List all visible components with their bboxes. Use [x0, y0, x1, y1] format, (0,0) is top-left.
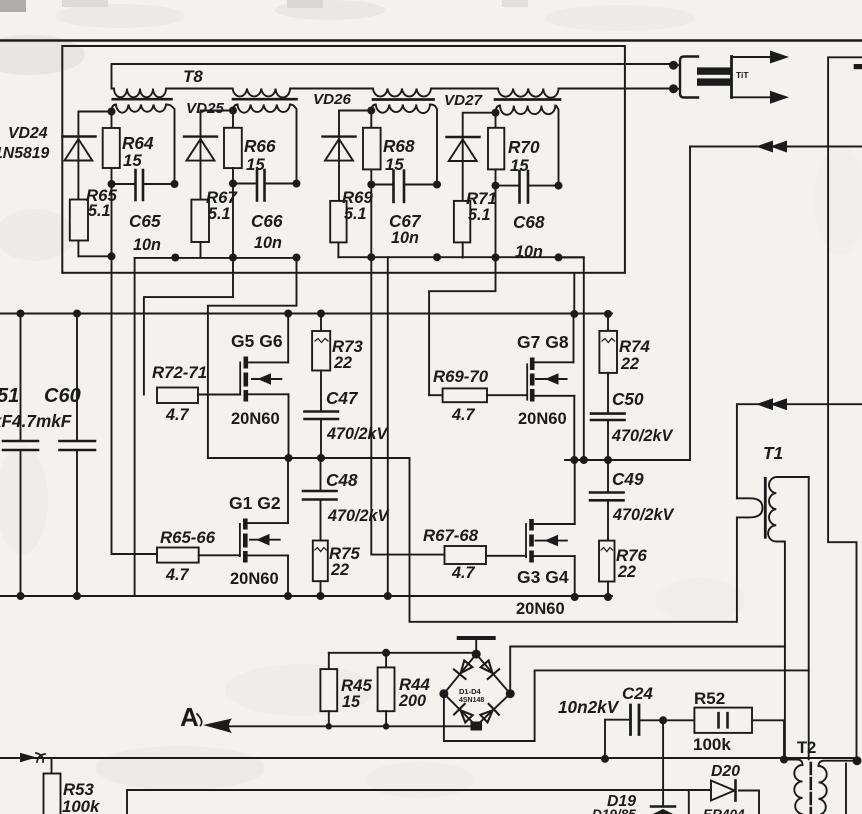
- resistor R73: [312, 314, 330, 412]
- node: cell2 rail junction: [229, 107, 237, 115]
- node: R75 bottom on lower bus: [317, 592, 325, 600]
- bus: bottom rail: [0, 757, 857, 759]
- wire: G3G4 source down to lower bus: [574, 556, 576, 597]
- wire+double arrow: feedback line (top): [690, 141, 862, 459]
- wire: rail1 drop to R65-66: [112, 256, 158, 554]
- T1 core bar: [764, 478, 767, 537]
- capacitor C66: [233, 170, 297, 201]
- transformer T2 right winding: [819, 761, 858, 814]
- node: R44 bottom: [383, 723, 389, 729]
- svg-text:20N60: 20N60: [230, 570, 279, 588]
- resistor R71: [454, 201, 470, 258]
- T8 secondary winding 2: [233, 105, 297, 184]
- svg-text:R72-71: R72-71: [152, 363, 207, 382]
- diode bridge D1-D4: [444, 654, 510, 726]
- resistor R65-66: [157, 548, 240, 563]
- wire: mid-bus corner down to T1 return: [410, 458, 736, 622]
- capacitor C50: [591, 414, 625, 460]
- wire: T1 secondary top drop: [808, 477, 810, 759]
- node: cell3 return dot: [384, 592, 392, 600]
- resistor R45: [320, 653, 337, 727]
- svg-text:T2: T2: [797, 739, 816, 757]
- lower board box (cut): [127, 790, 647, 814]
- wire: cell1 hook to diode leg: [78, 112, 111, 137]
- resistor R64: [103, 112, 120, 257]
- svg-text:R65-66: R65-66: [160, 528, 216, 547]
- wire+arrow: output 1: [732, 51, 789, 64]
- wire: right edge feed line: [828, 57, 862, 760]
- svg-text:T8: T8: [183, 67, 203, 86]
- svg-text:kF4.7mkF: kF4.7mkF: [0, 411, 72, 431]
- bus: lower rail: [0, 595, 612, 597]
- svg-text:C49: C49: [612, 469, 644, 489]
- wire: cell2 bottom: [135, 256, 297, 259]
- wire: cell4 return drop to right bus: [559, 257, 584, 460]
- resistor R53: [44, 758, 61, 814]
- wire: G1G2 drain up to mid bus: [287, 458, 289, 523]
- node: R76 bottom on lower bus: [604, 593, 612, 601]
- wire: G1G2 source down to lower bus: [287, 555, 289, 596]
- node: R52/T1 on bottom bus: [780, 756, 788, 764]
- capacitor C65: [112, 170, 175, 200]
- svg-text:4.7: 4.7: [451, 406, 476, 424]
- capacitor C68: [496, 171, 559, 203]
- svg-text:100k: 100k: [693, 735, 731, 754]
- resistor R69-70: [429, 388, 527, 402]
- diode VD27: [447, 137, 480, 201]
- svg-text:D1-D4: D1-D4: [459, 687, 482, 696]
- node: R45 bottom: [326, 723, 332, 729]
- svg-text:20N60: 20N60: [518, 410, 567, 428]
- bus: mid bus (right section): [565, 459, 690, 461]
- wire: C24 junction drop to D19: [662, 720, 664, 806]
- node: C51 top: [17, 310, 25, 318]
- diode VD26: [323, 137, 356, 201]
- svg-text:C50: C50: [612, 389, 644, 409]
- svg-text:100k: 100k: [62, 797, 101, 814]
- node: bridge top: [472, 650, 481, 659]
- enclosure box around T8 rectifier cells: [62, 46, 625, 273]
- svg-text:C48: C48: [326, 470, 358, 490]
- svg-text:ER404: ER404: [703, 807, 745, 814]
- svg-text:470/2kV: 470/2kV: [612, 506, 675, 524]
- svg-text:22: 22: [620, 355, 639, 373]
- bus: positive rail (upper): [0, 313, 612, 315]
- svg-text:G3 G4: G3 G4: [517, 567, 569, 587]
- wire: G7G8 source down to right mid bus: [573, 396, 575, 460]
- wire: cell4 hook to diode leg: [463, 113, 496, 137]
- svg-text:R74: R74: [619, 337, 650, 356]
- svg-text:C24: C24: [622, 684, 653, 703]
- wire: G5G6 source down to mid bus: [288, 394, 290, 458]
- svg-text:C68: C68: [513, 212, 545, 232]
- node: C66 right junction: [293, 180, 301, 188]
- svg-text:VD24: VD24: [8, 125, 48, 142]
- wire: bridge right to T1 return loop: [510, 647, 785, 694]
- wire+arrow: node A line: [197, 714, 473, 733]
- svg-text:22: 22: [617, 563, 636, 581]
- wire: cell3 return drop to lower bus: [387, 257, 389, 596]
- node: cell2 right bottom: [293, 254, 301, 262]
- node: C24 left on bus: [601, 755, 609, 763]
- transistor G3 G4: [526, 519, 575, 563]
- svg-text:10n: 10n: [391, 229, 419, 247]
- T8 secondary winding 3: [371, 105, 437, 185]
- resistor R67: [191, 200, 209, 257]
- svg-text:51: 51: [0, 385, 19, 407]
- capacitor C67: [371, 171, 437, 203]
- svg-text:22: 22: [333, 354, 352, 372]
- svg-text:R64: R64: [122, 133, 154, 153]
- node: C24/R52 junction: [659, 716, 667, 724]
- svg-text:R67-68: R67-68: [423, 526, 479, 545]
- svg-text:A: A: [180, 702, 199, 732]
- node: C47 bottom on mid bus: [317, 454, 325, 462]
- page section divider line: [0, 39, 862, 42]
- node: R73 top on bus: [317, 310, 325, 318]
- node: G1G2 source on lower bus: [284, 592, 292, 600]
- node: C68 right junction: [555, 182, 563, 190]
- node: C67 right junction: [433, 181, 441, 189]
- resistor R76: [599, 541, 615, 597]
- wire: G3G4 drain up to right mid bus: [574, 460, 576, 524]
- svg-text:T1: T1: [763, 443, 783, 463]
- svg-text:10n2kV: 10n2kV: [558, 697, 620, 717]
- resistor R52: [663, 708, 784, 760]
- wire: cell3 hook to diode leg: [339, 111, 371, 137]
- node: G5G6 source on mid bus: [285, 454, 293, 462]
- node: C60 top: [73, 310, 81, 318]
- svg-text:R52: R52: [694, 689, 725, 708]
- connector to TiT (left shell): [680, 57, 698, 98]
- svg-text:470/2kV: 470/2kV: [611, 427, 674, 445]
- capacitor C48: [303, 458, 337, 541]
- node: T2 right on bus: [853, 756, 862, 765]
- resistor R67-68: [445, 546, 527, 564]
- transformer T8 primary winding (4 groups): [112, 89, 674, 98]
- svg-text:4SN148: 4SN148: [459, 697, 484, 704]
- transistor G7 G8: [527, 358, 574, 402]
- svg-text:TiT: TiT: [736, 70, 749, 80]
- transistor G5 G6: [240, 357, 288, 402]
- node: R70/C68 junction: [492, 182, 500, 190]
- wire: T8 primary top loop to connector: [112, 64, 674, 89]
- node: cell4 right bottom: [555, 253, 563, 261]
- wire: cell2 C-return drop to lower bus: [134, 258, 136, 596]
- svg-text:C60: C60: [44, 385, 81, 407]
- node: cell3 right bottom: [433, 253, 441, 261]
- svg-text:10n: 10n: [133, 236, 161, 254]
- node: G3G4 source on lower bus: [571, 593, 579, 601]
- chassis T-bar above bridge: [459, 638, 494, 654]
- capacitor C24: [605, 705, 663, 759]
- wire+arrow: output 2: [732, 91, 789, 104]
- capacitor C51 (left, cut): [3, 314, 38, 597]
- svg-text:10n: 10n: [254, 234, 282, 252]
- svg-text:470/2kV: 470/2kV: [326, 425, 389, 443]
- node: C65 right junction: [171, 180, 179, 188]
- node: bridge bottom: [471, 722, 483, 731]
- wire: cell1 bottom: [78, 255, 111, 257]
- node: cell3 rail bottom: [367, 253, 375, 261]
- resistor R72-71: [157, 388, 240, 404]
- node: C50 bottom on right mid bus: [604, 456, 612, 464]
- node: G7G8 source on right mid bus: [570, 456, 578, 464]
- wire: cell2 rail elbow to R72-71: [144, 258, 233, 395]
- node: cell4 rail junction: [492, 109, 500, 117]
- node: G7G8 drain on bus: [570, 310, 578, 318]
- T8 core bar 2: [233, 98, 296, 101]
- wire: T8 primary output pair stub: [674, 65, 681, 89]
- svg-text:G7 G8: G7 G8: [517, 332, 569, 352]
- resistor R70: [488, 113, 504, 258]
- T8 core bar 4: [495, 98, 560, 101]
- bus: mid bus (left section): [208, 457, 410, 459]
- svg-text:C66: C66: [251, 211, 283, 231]
- capacitor C49: [590, 460, 624, 541]
- node: cell3 rail junction: [367, 107, 375, 115]
- node: R66/C66 junction: [229, 180, 237, 188]
- svg-text:200: 200: [398, 692, 426, 710]
- squiggle noise at arrow: [36, 753, 45, 762]
- node: cell4 rail bottom: [492, 253, 500, 261]
- wire: cell4 rail elbow to R69-70: [429, 257, 495, 395]
- wire: G5G6 drain up to bus: [287, 314, 289, 363]
- svg-text:R69-70: R69-70: [433, 367, 489, 386]
- svg-text:22: 22: [330, 561, 349, 579]
- wire: right edge drop at T2: [845, 764, 847, 814]
- svg-text:C47: C47: [326, 388, 359, 408]
- svg-text:4.7: 4.7: [451, 564, 476, 582]
- node: connector pin 1: [669, 61, 678, 70]
- node: C51 bottom: [17, 592, 25, 600]
- svg-text:5.1: 5.1: [208, 205, 231, 223]
- connector right shell: [730, 57, 733, 98]
- node: R44 top: [382, 649, 390, 657]
- node: cell2 rail bottom: [229, 254, 237, 262]
- svg-text:VD27: VD27: [444, 92, 484, 109]
- transistor G1 G2: [240, 519, 288, 563]
- svg-text:20N60: 20N60: [516, 600, 565, 618]
- svg-text:VD26: VD26: [313, 91, 352, 108]
- svg-text:5.1: 5.1: [344, 205, 367, 223]
- wire: cell3 rail drop to R67-68: [371, 257, 444, 554]
- svg-text:4.7: 4.7: [165, 566, 190, 584]
- T8 core bar 1: [113, 98, 172, 101]
- T8 core bar 3: [373, 98, 434, 101]
- svg-text:C65: C65: [129, 211, 161, 231]
- svg-text:D19/85: D19/85: [592, 807, 636, 814]
- diode D19: [651, 807, 675, 814]
- node: cell4 return on right mid bus: [580, 456, 588, 464]
- transformer T1 secondary winding: [768, 477, 809, 760]
- node: R74 top on bus: [604, 310, 612, 318]
- node: G5G6 drain on bus: [284, 310, 292, 318]
- svg-text:10n: 10n: [515, 243, 543, 261]
- T8 secondary winding 4: [496, 106, 559, 186]
- transformer T1 primary half-turn: [737, 498, 763, 622]
- resistor R65: [70, 200, 88, 257]
- svg-text:R70: R70: [508, 137, 540, 157]
- svg-text:4.7: 4.7: [165, 406, 190, 424]
- svg-text:15: 15: [123, 151, 142, 170]
- diode D20: [711, 781, 736, 801]
- node: bridge right: [506, 689, 515, 698]
- resistor R66: [224, 111, 242, 258]
- node: cell2 C65-return dot: [171, 254, 179, 262]
- node: bridge left: [439, 689, 448, 698]
- capacitor C60: [60, 314, 96, 597]
- wire: cell2 hook to diode leg: [201, 111, 234, 137]
- resistor R68: [363, 111, 381, 258]
- svg-text:C67: C67: [389, 211, 422, 231]
- node: R68/C67 junction: [367, 181, 375, 189]
- svg-text:5.1: 5.1: [88, 202, 111, 220]
- resistor R69: [330, 201, 346, 257]
- connector thick pin bars: [697, 67, 732, 85]
- wire: enclosure stub to G7G8 drain node: [573, 274, 575, 314]
- node: R64/C65 junction: [108, 180, 116, 188]
- svg-text:D20: D20: [711, 763, 740, 780]
- node: connector pin 2: [669, 84, 678, 93]
- transformer T2 left winding: [784, 760, 803, 814]
- thick mark top right: [854, 64, 862, 69]
- node: cell1 rail bottom: [108, 252, 116, 260]
- svg-text:VD25: VD25: [186, 100, 225, 117]
- wire: bridge left to T1 secondary: [444, 670, 809, 741]
- diode VD24: [62, 137, 95, 200]
- wire: cell3+4 bottom: [338, 256, 583, 258]
- svg-text:1N5819: 1N5819: [0, 145, 50, 162]
- svg-text:5.1: 5.1: [468, 206, 491, 224]
- svg-text:15: 15: [246, 155, 265, 174]
- node: C60 bottom: [73, 592, 81, 600]
- svg-text:20N60: 20N60: [231, 410, 280, 428]
- capacitor C47: [305, 412, 339, 459]
- wire: R45/R44 top to bridge: [329, 652, 476, 654]
- wire: G7G8 drain up to bus: [573, 314, 575, 362]
- node: cell1 rail junction: [108, 108, 116, 116]
- resistor R74: [599, 314, 617, 414]
- wire: D20 branch: [647, 790, 759, 814]
- T2 core (dashed): [809, 763, 812, 814]
- resistor R75: [313, 541, 328, 597]
- svg-text:R66: R66: [244, 136, 276, 156]
- arrow on bottom rail: [20, 753, 37, 762]
- svg-text:470/2kV: 470/2kV: [327, 507, 390, 525]
- diode VD25: [184, 137, 217, 200]
- wire+double arrow: T1 drive line: [737, 398, 862, 498]
- wire: cell2 right elbow down to mid bus: [208, 258, 297, 459]
- T8 secondary winding 1: [112, 105, 175, 185]
- svg-text:R68: R68: [383, 136, 415, 156]
- svg-text:G5 G6: G5 G6: [231, 331, 283, 351]
- resistor R44: [378, 653, 395, 727]
- svg-text:15: 15: [342, 693, 361, 711]
- svg-text:G1 G2: G1 G2: [229, 493, 281, 513]
